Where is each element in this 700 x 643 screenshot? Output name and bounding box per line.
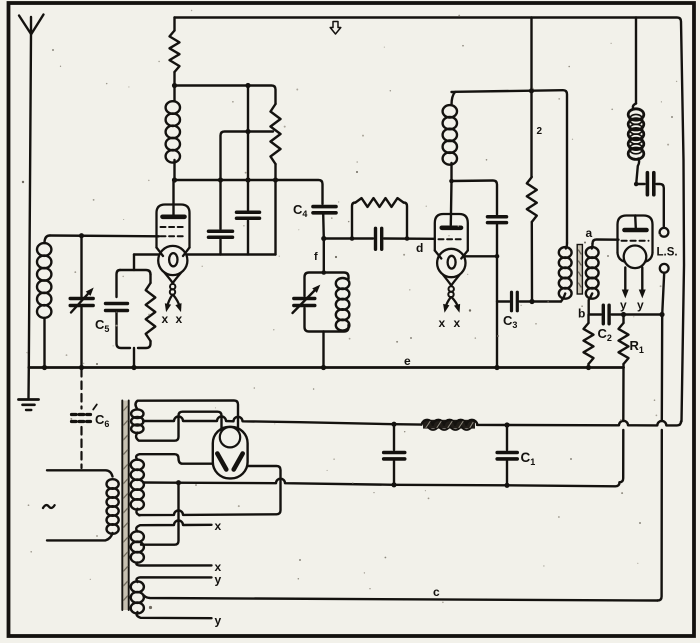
resistor grid leak R-d [352, 203, 356, 239]
wire LS down [658, 273, 665, 601]
tube V2 bulb [437, 249, 465, 277]
junction B+ cap1 [391, 422, 396, 427]
tube V3 bulb [624, 245, 647, 268]
transformer T1 winding W2 [136, 454, 213, 464]
svg-text:d: d [416, 241, 423, 255]
svg-text:e: e [404, 354, 411, 368]
junction y180-x275 [273, 177, 278, 182]
junction y180-anode1 [172, 177, 177, 182]
node A1 [172, 83, 177, 88]
wire top rail HT+ [175, 18, 685, 422]
HT arrow symbol [330, 22, 341, 35]
junction bus-f [321, 365, 326, 370]
wire y180 [175, 180, 323, 204]
junction bus-antcoil [42, 365, 47, 370]
inductor L3 tuning coil [336, 278, 350, 289]
loudspeaker terminal 2 [660, 264, 669, 273]
junction y85-x248 [245, 83, 250, 88]
tube V2 anode [442, 226, 461, 231]
loudspeaker terminal 1 [660, 228, 669, 237]
transformer T1 winding W3 [136, 521, 211, 532]
svg-text:x: x [215, 519, 222, 533]
node a wire [593, 240, 619, 244]
tube V1 envelope [157, 205, 190, 248]
capacitor bypass V2 [488, 215, 507, 219]
wire x531 lower [531, 222, 534, 302]
capacitor C1 [506, 425, 508, 450]
transformer T1 primary [47, 470, 113, 476]
wire cathode1 [134, 253, 276, 255]
inductor L2 anode coil 1 [173, 86, 175, 102]
svg-text:a: a [586, 226, 593, 240]
capacitor C2 [602, 305, 605, 324]
tube V3 cathode arrows [624, 268, 626, 294]
capacitor LS coupling [646, 173, 650, 195]
inductor L4 anode coil 2 [452, 92, 456, 105]
junction B- cap1 [391, 482, 396, 487]
tube V4 anode right [234, 454, 243, 470]
tube V4 rectifier envelope [213, 427, 248, 479]
capacitor C4 [313, 205, 336, 209]
wire y85 [175, 86, 276, 105]
wire anode2 tee [452, 181, 498, 215]
tube V2 grid [439, 238, 465, 240]
tube V2 filament [448, 256, 456, 269]
svg-text:2: 2 [537, 126, 543, 137]
transformer T1 core [122, 401, 128, 611]
resistor 2 [527, 177, 537, 222]
svg-text:L.S.: L.S. [657, 247, 678, 259]
wire C3 [497, 300, 510, 302]
svg-text:x: x [439, 316, 446, 330]
tube V1 anode [163, 215, 185, 220]
junction anode3 [634, 182, 639, 187]
junction d-right [405, 236, 410, 241]
junction bus-gridres [586, 365, 591, 370]
tube V1 filament leads [164, 273, 172, 283]
capacitor grid C-d [374, 228, 377, 249]
wire W3 center tap riser [141, 483, 179, 545]
junction y91-x531 [529, 88, 534, 93]
junction B- W3tap [176, 480, 181, 485]
inductor L1 antenna coil [45, 236, 51, 244]
svg-text:y: y [637, 298, 644, 312]
wire grid1 [50, 234, 159, 237]
ground [27, 368, 30, 399]
svg-text:y: y [215, 614, 222, 628]
node f junction [321, 236, 326, 241]
tube V2 shoulders [435, 251, 468, 259]
tube V1 bulb [158, 246, 187, 275]
wire cathode2 [464, 255, 497, 257]
transformer T1 winding W4 [137, 577, 212, 582]
junction bus-V2cath [494, 365, 499, 370]
junction grid1-vc1 [79, 233, 84, 238]
junction d-left [350, 236, 355, 241]
svg-text:y: y [215, 573, 222, 587]
inductor L5 output choke [635, 18, 637, 104]
wire x531 upper [530, 18, 532, 178]
wire W1 center tap B+ [142, 420, 145, 422]
tube V1 filament [169, 253, 177, 266]
capacitor C3 [510, 292, 513, 311]
tube V2 filament leads [443, 275, 451, 285]
tube V3 envelope [618, 216, 653, 253]
wire f down [323, 239, 325, 273]
tube V4 filament [220, 427, 240, 447]
wire W4 mid lead c [144, 596, 658, 601]
svg-text:x: x [454, 316, 461, 330]
junction tap-x248 [245, 129, 250, 134]
capacitor C5 [120, 270, 151, 275]
resistor grid bias [587, 315, 589, 324]
wire cap to LS [657, 184, 664, 228]
transformer T2 secondary [591, 244, 594, 249]
tube V2 anode lead [450, 181, 453, 225]
resistor R-A2 [271, 104, 281, 164]
tuned circuit f box [305, 273, 349, 297]
capacitor C6 dashed [80, 369, 82, 409]
transformer T2 core [577, 245, 582, 295]
variable capacitor VC1 [80, 236, 82, 297]
label C6 [93, 405, 97, 410]
wire B+ filter [144, 417, 422, 425]
tube V1 shoulders [157, 248, 190, 257]
transformer T2 primary [566, 243, 567, 249]
AC source symbol [43, 505, 55, 508]
junction B- C1 [504, 483, 509, 488]
wire C5 to bus [133, 348, 135, 368]
resistor R1 [622, 315, 624, 324]
svg-text:x: x [162, 312, 169, 326]
junction y180-x220 [218, 177, 223, 182]
wire anode3 tee [636, 183, 644, 185]
svg-text:x: x [176, 312, 183, 326]
wire b [589, 313, 601, 315]
junction y180-x248 [245, 177, 250, 182]
wire bus e [29, 366, 624, 369]
transformer T1 winding W1 [131, 409, 143, 418]
resistor grid leak R-C5 [149, 275, 151, 284]
tube V3 grid [622, 240, 649, 242]
wire W1 bottom lead [136, 412, 221, 441]
variable capacitor VC2 [294, 297, 315, 300]
wire antenna down [29, 34, 31, 368]
capacitor filter 1 [393, 424, 395, 450]
capacitor bypass A [219, 180, 221, 229]
svg-text:b: b [578, 307, 585, 321]
junction B+ C1 [504, 422, 509, 427]
junction anode2 [449, 179, 454, 184]
wire R1 down [620, 368, 624, 483]
junction b-LS [659, 312, 664, 317]
junction C3-x531 [529, 299, 534, 304]
antenna [19, 15, 44, 35]
wire W2 center tap [142, 481, 145, 483]
resistor anode R-A1 [173, 18, 175, 31]
wire B- return [144, 479, 620, 487]
junction bus-vc1 [79, 365, 84, 370]
svg-text:f: f [314, 251, 318, 263]
tube V4 anode left [217, 454, 226, 470]
junction bus-C5 [131, 365, 136, 370]
wire f to bus [322, 332, 324, 368]
wire f-d [324, 237, 373, 239]
wire W1 top lead [136, 401, 239, 432]
tube V1 grid screen [161, 226, 187, 228]
junction b-R1 [621, 312, 626, 317]
wire y91 [452, 90, 568, 243]
tube V3 anode [625, 228, 647, 233]
junction f-box-top [322, 270, 327, 275]
wire W2 bottom anode2 [136, 466, 280, 515]
tube V2 envelope [435, 214, 468, 251]
svg-text:y: y [620, 298, 627, 312]
wire cathode1 to C5 [133, 255, 135, 271]
capacitor bypass B [247, 86, 249, 211]
junction cathode2 [495, 254, 500, 259]
svg-text:c: c [433, 585, 440, 599]
wire tap y131 [221, 132, 274, 181]
inductor L6 filter choke [423, 420, 475, 429]
tube V1 grid control [161, 235, 187, 237]
